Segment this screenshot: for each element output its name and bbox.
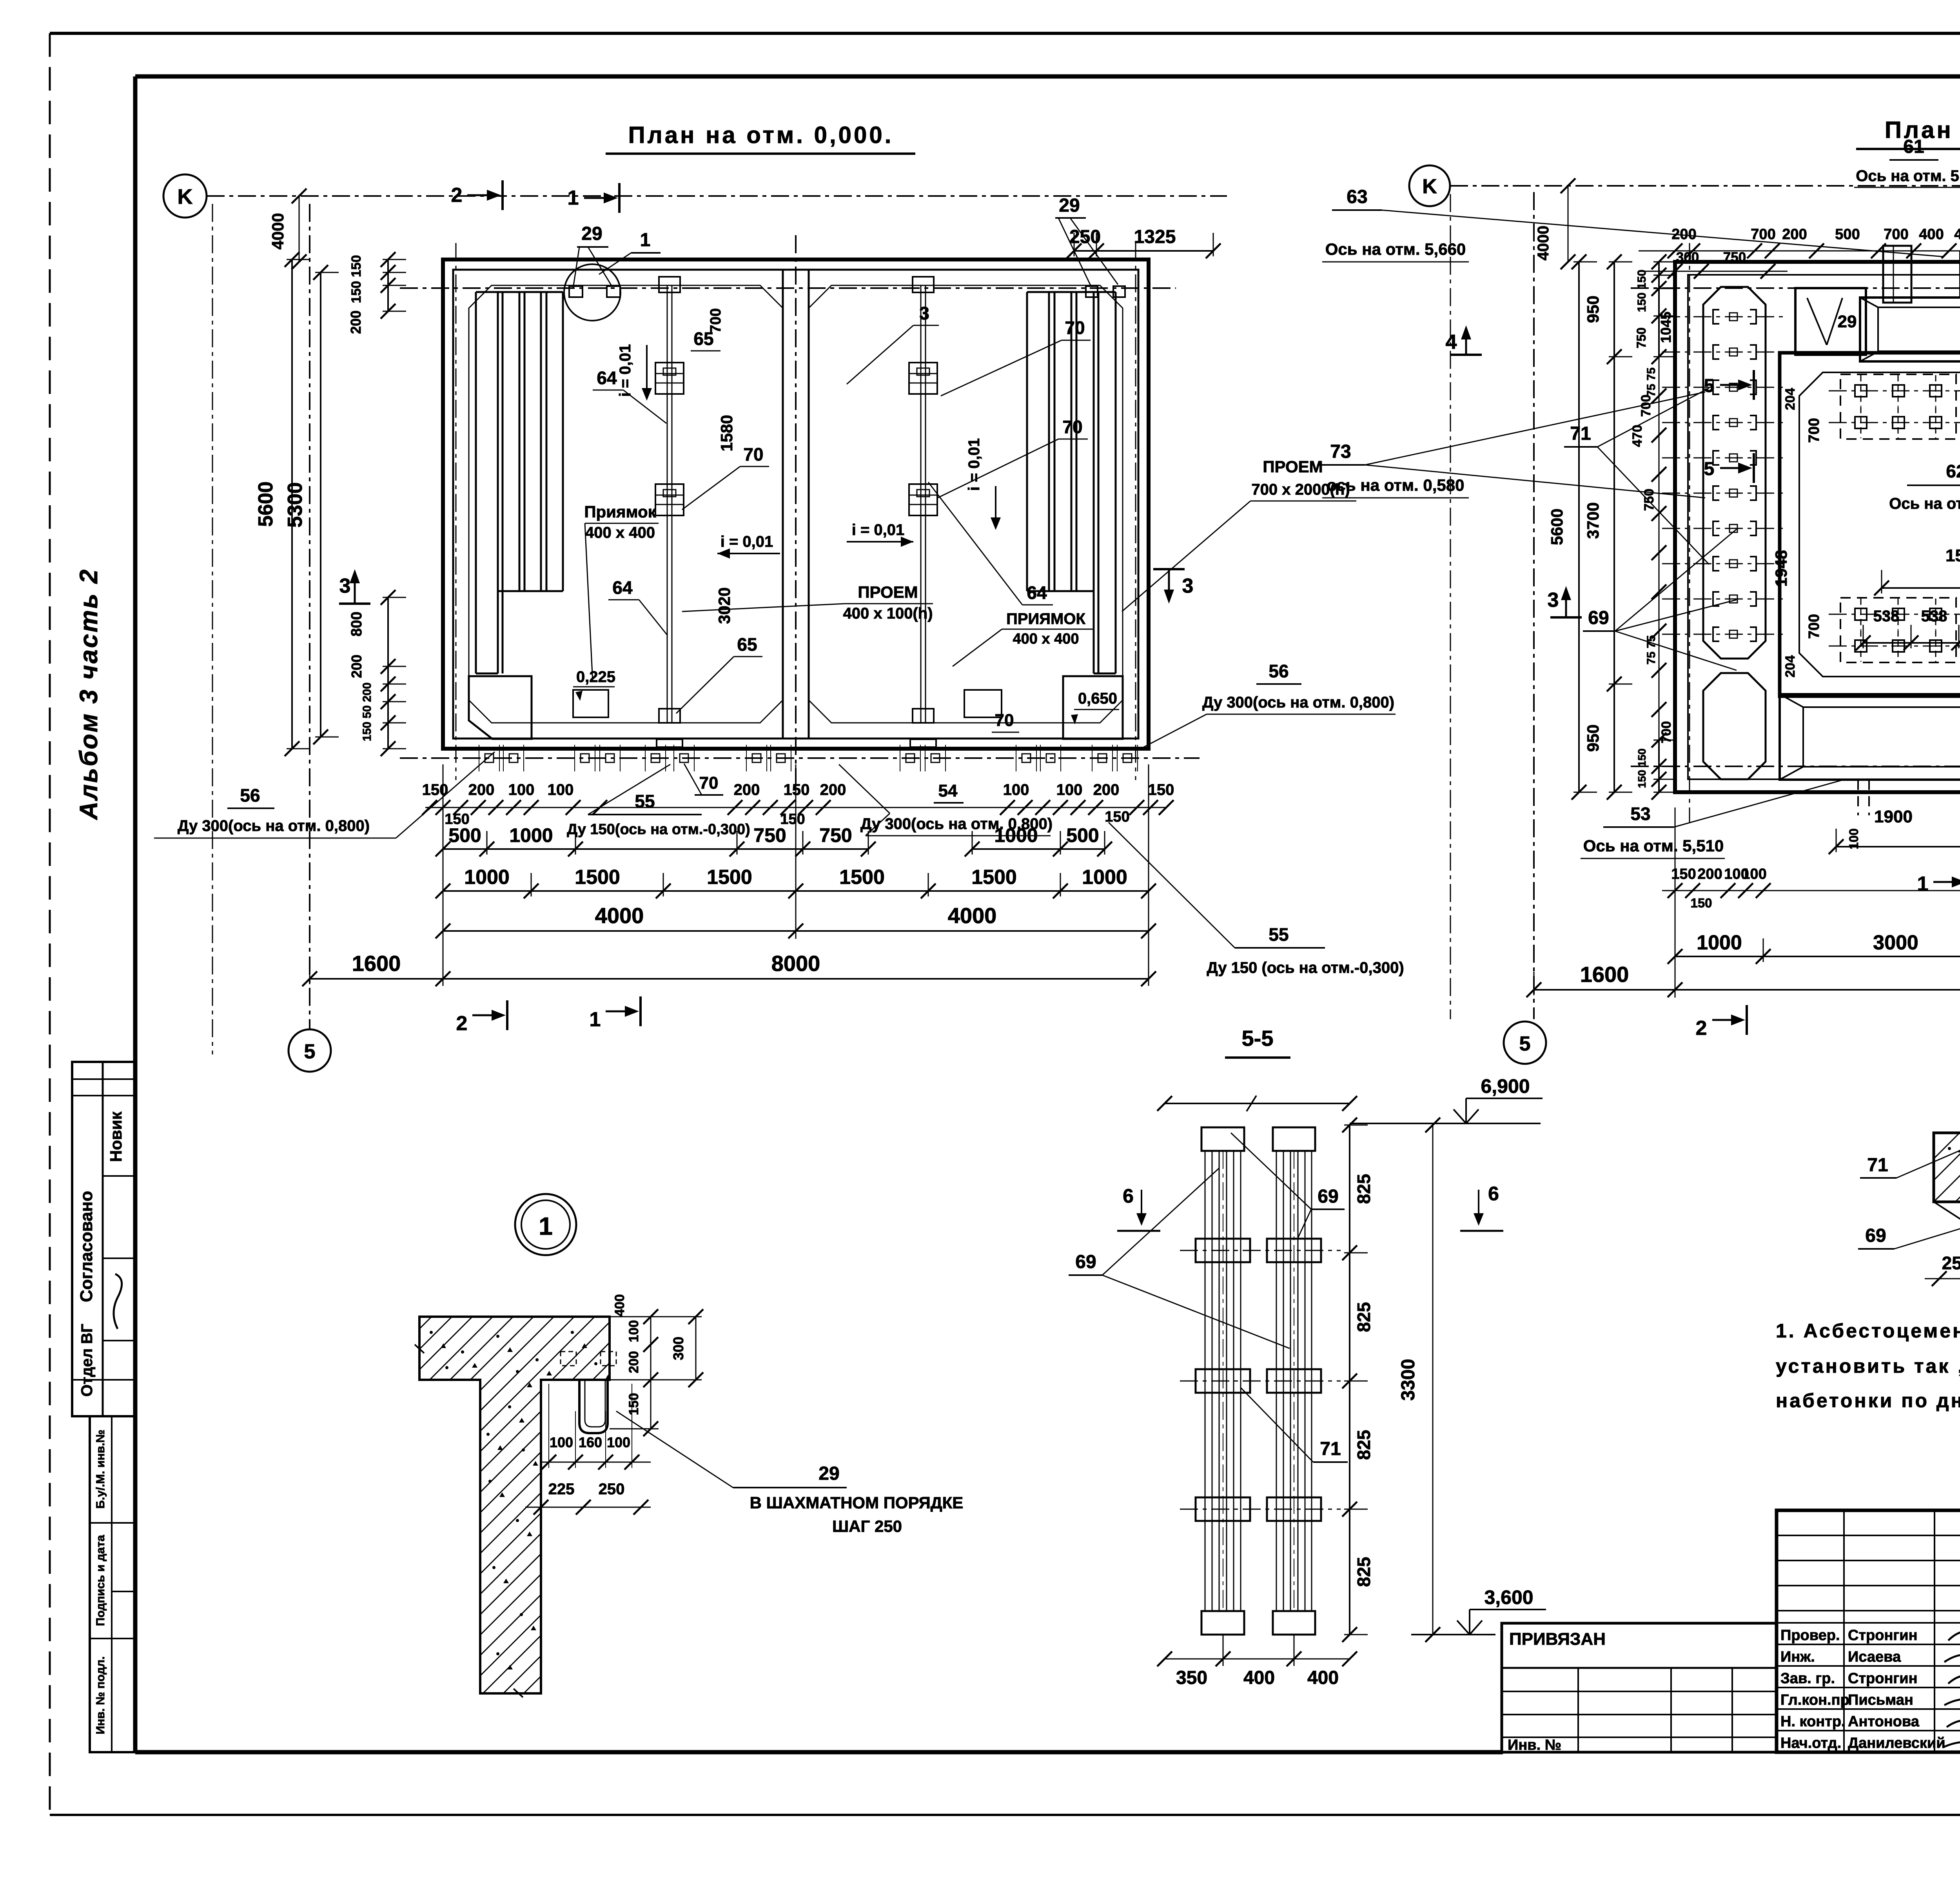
svg-text:750: 750 xyxy=(1723,250,1746,265)
plan1 cell2 sump 0,650 xyxy=(1063,676,1123,739)
svg-text:ПРИВЯЗАН: ПРИВЯЗАН xyxy=(1509,1629,1606,1649)
svg-text:100: 100 xyxy=(508,781,535,798)
svg-text:204: 204 xyxy=(1783,655,1798,678)
svg-text:200: 200 xyxy=(820,781,846,798)
svg-text:1: 1 xyxy=(568,187,579,209)
svg-text:K: K xyxy=(1422,175,1437,198)
side stamp lower box xyxy=(90,1416,135,1752)
section 5-5 mark 6 left xyxy=(1117,1185,1160,1231)
svg-text:Альбом 3 часть 2: Альбом 3 часть 2 xyxy=(74,568,103,820)
section 6-6 dim row 255-400-400 xyxy=(1925,1239,1960,1286)
svg-text:4000: 4000 xyxy=(948,903,997,928)
detail 1 tee-section with hatch xyxy=(47,1309,989,1701)
svg-text:Нач.отд.: Нач.отд. xyxy=(1780,1735,1841,1751)
svg-text:установить так , чтобы расст: установить так , чтобы расстояние от низ… xyxy=(1776,1355,1960,1377)
label PROEM 700x2000 right of plan1 xyxy=(1122,457,1356,611)
plan1 dim row 4000 4000 xyxy=(443,930,1149,932)
svg-text:5: 5 xyxy=(304,1040,316,1063)
svg-text:3700: 3700 xyxy=(1584,502,1602,539)
plan1 outer wall xyxy=(443,259,1149,749)
svg-text:3020: 3020 xyxy=(715,587,733,624)
svg-text:1500: 1500 xyxy=(971,866,1017,889)
svg-text:1325: 1325 xyxy=(1134,227,1176,247)
svg-text:500: 500 xyxy=(1066,824,1099,846)
detail 1 balloon xyxy=(515,1194,576,1255)
svg-text:5600: 5600 xyxy=(254,481,277,527)
plan2 box 29 top-left xyxy=(1795,288,1866,355)
svg-text:i = 0,01: i = 0,01 xyxy=(617,344,634,397)
svg-text:3: 3 xyxy=(339,575,351,597)
svg-text:61: 61 xyxy=(1903,136,1924,157)
svg-text:70: 70 xyxy=(1062,417,1082,437)
svg-text:150 150: 150 150 xyxy=(349,255,364,303)
svg-text:150 50 200: 150 50 200 xyxy=(361,682,374,741)
svg-text:69: 69 xyxy=(1865,1225,1886,1246)
svg-text:64: 64 xyxy=(612,577,633,598)
svg-text:69: 69 xyxy=(1318,1186,1338,1207)
svg-text:350: 350 xyxy=(1176,1668,1207,1688)
plan1 cell2 pit near partition xyxy=(964,690,1002,717)
svg-text:64: 64 xyxy=(1027,582,1047,603)
svg-text:3: 3 xyxy=(1548,589,1559,611)
svg-text:Подпись и дата: Подпись и дата xyxy=(94,1535,107,1626)
plan2 wall axes dash-dot xyxy=(1631,235,1960,829)
axis K line right xyxy=(1450,185,1960,187)
svg-text:200: 200 xyxy=(626,1351,641,1374)
plan2 inner wall line xyxy=(1688,275,1960,779)
dim 4000 K-to-plan left xyxy=(269,189,307,269)
svg-text:400 x 400: 400 x 400 xyxy=(585,524,655,541)
svg-text:825: 825 xyxy=(1354,1430,1374,1460)
svg-text:150: 150 xyxy=(784,781,810,798)
svg-text:54: 54 xyxy=(938,781,958,800)
svg-text:825: 825 xyxy=(1354,1302,1374,1332)
plan2 top beam plate left xyxy=(1860,298,1960,361)
svg-text:700: 700 xyxy=(1806,614,1822,639)
section 5-5 label 69 left xyxy=(1069,1168,1290,1348)
svg-text:4: 4 xyxy=(1446,331,1457,354)
svg-text:500: 500 xyxy=(1835,226,1860,243)
section 5-5 top dim line xyxy=(1157,1096,1357,1111)
svg-text:1500: 1500 xyxy=(1945,546,1960,565)
plan2 bottom trough xyxy=(1780,694,1960,780)
plan1 cell1 sump box xyxy=(469,676,532,739)
svg-text:56: 56 xyxy=(240,785,260,806)
svg-text:500: 500 xyxy=(448,824,481,846)
svg-text:В ШАХМАТНОМ ПОРЯДКЕ: В ШАХМАТНОМ ПОРЯДКЕ xyxy=(750,1493,964,1512)
svg-text:Отдел ВГ: Отдел ВГ xyxy=(78,1324,96,1397)
plan2 extension verticals below xyxy=(1675,807,1960,998)
svg-text:Ду 300(ось на отм. 0,800): Ду 300(ось на отм. 0,800) xyxy=(178,817,370,835)
svg-text:1500: 1500 xyxy=(839,866,885,889)
svg-text:Инж.: Инж. xyxy=(1780,1649,1815,1665)
title: Plan at elev 0,000 xyxy=(606,122,915,154)
section 5-5 dim 3300 xyxy=(1398,1118,1440,1642)
plan1 extension verticals below xyxy=(443,764,1149,986)
svg-text:29: 29 xyxy=(818,1463,839,1484)
axis K line left xyxy=(207,195,1227,197)
svg-text:8000: 8000 xyxy=(771,951,820,976)
plan2 left tick chain full xyxy=(1651,357,1666,741)
svg-text:400: 400 xyxy=(1243,1668,1275,1688)
svg-text:6: 6 xyxy=(1123,1185,1134,1207)
label 56 Du300 right of plan1 xyxy=(1141,661,1396,749)
plan1 cell2 chamfered interior xyxy=(809,285,1123,723)
plan2 left bottom panel outline xyxy=(1703,673,1766,779)
plan2 left dim column xyxy=(1535,178,1677,800)
svg-text:1: 1 xyxy=(640,230,651,250)
plan2 dim row 1000-3000 xyxy=(1675,956,1960,957)
svg-text:Инв. №: Инв. № xyxy=(1508,1737,1561,1753)
svg-text:400: 400 xyxy=(1307,1668,1339,1688)
svg-text:100: 100 xyxy=(1847,828,1861,849)
privyazan table xyxy=(1502,1623,1777,1753)
svg-text:100: 100 xyxy=(626,1320,641,1343)
section 5-5 clamp axis lines xyxy=(1180,1250,1341,1509)
axis K bubble right xyxy=(1409,165,1450,206)
svg-text:4000: 4000 xyxy=(1535,226,1552,261)
svg-text:Согласовано: Согласовано xyxy=(77,1191,96,1302)
svg-text:71: 71 xyxy=(1320,1439,1341,1459)
svg-text:200: 200 xyxy=(468,781,495,798)
title: Plan at elev 5,660 xyxy=(1856,117,1960,149)
svg-text:400: 400 xyxy=(1919,226,1944,243)
svg-text:3: 3 xyxy=(1182,575,1194,597)
plan2 bottom small stub left xyxy=(1858,780,1869,815)
svg-text:200: 200 xyxy=(1697,866,1722,882)
svg-text:0,225: 0,225 xyxy=(576,668,615,686)
plan2 dim row 1600 8000 xyxy=(1534,989,1960,991)
svg-text:Письман: Письман xyxy=(1848,1692,1913,1708)
svg-text:3,600: 3,600 xyxy=(1484,1586,1533,1608)
svg-text:29: 29 xyxy=(581,223,602,244)
svg-text:470: 470 xyxy=(1630,425,1645,447)
plan1 left small dims bottom xyxy=(348,590,406,756)
plan1 cell1 chamfered interior xyxy=(469,285,783,723)
plan2 dim 1900 below xyxy=(1829,807,1960,856)
svg-text:100: 100 xyxy=(548,781,574,798)
svg-text:5-5: 5-5 xyxy=(1242,1026,1274,1051)
svg-text:56: 56 xyxy=(1269,661,1289,681)
svg-text:Данилевский: Данилевский xyxy=(1848,1735,1945,1751)
section 6-6 labels 71 xyxy=(1860,1150,1960,1178)
plan1 cell1 formwork panels (comb) xyxy=(476,292,563,673)
label 55 Du150 bottom-right of plan1 xyxy=(1109,822,1404,976)
svg-text:3000: 3000 xyxy=(1873,931,1918,954)
label 54 below plan1 xyxy=(934,781,964,803)
svg-text:2: 2 xyxy=(1696,1017,1707,1040)
svg-text:Ду 150 (ось на отм.-0,300): Ду 150 (ось на отм.-0,300) xyxy=(1207,959,1404,976)
svg-text:700: 700 xyxy=(1884,226,1908,243)
plan1 cell2 formwork panels (comb) xyxy=(1027,292,1116,673)
svg-text:Новик: Новик xyxy=(107,1111,125,1162)
label 61 left above plan2 xyxy=(1854,136,1960,251)
label Du300 mid below plan1 xyxy=(839,764,1053,836)
svg-text:4000: 4000 xyxy=(269,213,287,249)
svg-text:1: 1 xyxy=(539,1212,553,1240)
svg-text:Инв. № подл.: Инв. № подл. xyxy=(94,1656,107,1734)
svg-text:1900: 1900 xyxy=(1874,807,1913,826)
svg-text:Стронгин: Стронгин xyxy=(1848,1670,1918,1687)
svg-text:400 x 100(h): 400 x 100(h) xyxy=(843,605,933,622)
label 1 above plan1 (detail leader) xyxy=(599,230,661,274)
svg-text:Н. контр.: Н. контр. xyxy=(1780,1713,1846,1730)
svg-text:Исаева: Исаева xyxy=(1848,1649,1901,1665)
plan1 tiny dim row xyxy=(422,781,1174,827)
plan1 slope arrows and labels xyxy=(617,344,1001,559)
svg-text:Ось на отм. 5,510: Ось на отм. 5,510 xyxy=(1583,836,1724,855)
svg-text:6,900: 6,900 xyxy=(1481,1075,1530,1097)
svg-text:750: 750 xyxy=(753,824,786,846)
svg-text:204: 204 xyxy=(1783,388,1798,410)
section 5-5 bottom dims xyxy=(1157,1635,1357,1688)
svg-text:Б.у/.М. инв.№: Б.у/.М. инв.№ xyxy=(94,1430,107,1509)
axis 5 vertical line right plan xyxy=(1533,192,1535,1019)
svg-text:1000: 1000 xyxy=(464,866,510,889)
plan2 top pipe left xyxy=(1883,246,1911,303)
svg-text:950: 950 xyxy=(1584,296,1602,323)
svg-text:100: 100 xyxy=(1003,781,1029,798)
svg-text:700: 700 xyxy=(1806,418,1822,443)
svg-text:55: 55 xyxy=(1269,924,1289,945)
svg-text:ПРИЯМОК: ПРИЯМОК xyxy=(1006,610,1085,628)
svg-text:1. Асбестоцементные листы по: 1. Асбестоцементные листы поз. 64 у днищ… xyxy=(1776,1320,1960,1342)
svg-text:825: 825 xyxy=(1354,1174,1374,1204)
svg-text:Ось на отм. 5,510: Ось на отм. 5,510 xyxy=(1889,495,1960,512)
svg-text:700: 700 xyxy=(708,308,724,333)
svg-text:65: 65 xyxy=(737,634,757,655)
svg-text:250: 250 xyxy=(1069,227,1101,247)
plan2 tiny dim row below xyxy=(1662,866,1960,910)
detail 1 bottom dims 100-160-100 xyxy=(541,1384,651,1470)
svg-text:160: 160 xyxy=(579,1434,602,1450)
label 63 left of plan2 xyxy=(1322,187,1944,262)
svg-text:Ду 150(ось на отм.-0,300): Ду 150(ось на отм.-0,300) xyxy=(567,821,750,838)
plan2 panel rows with clamps left xyxy=(1662,310,1788,641)
svg-text:1600: 1600 xyxy=(1580,962,1629,987)
svg-text:1948: 1948 xyxy=(1772,550,1790,586)
svg-text:ПРОЕМ: ПРОЕМ xyxy=(858,583,918,601)
plan1 cell1 small pit 0,225 xyxy=(573,668,615,717)
svg-text:300: 300 xyxy=(1676,250,1699,265)
svg-text:i = 0,01: i = 0,01 xyxy=(720,533,773,550)
svg-text:100: 100 xyxy=(1742,866,1766,882)
svg-text:700: 700 xyxy=(1751,226,1775,243)
label 29 top-right of plan1 xyxy=(1055,195,1118,285)
plan1 detail-1 balloon on top wall xyxy=(564,264,621,321)
label 56 Du300 bottom-left of plan1 xyxy=(154,752,495,838)
dim 250 1325 above plan1 right xyxy=(1074,250,1213,252)
svg-text:5: 5 xyxy=(1704,459,1715,479)
svg-text:1500: 1500 xyxy=(707,866,752,889)
svg-text:200: 200 xyxy=(734,781,760,798)
svg-text:1580: 1580 xyxy=(717,415,736,451)
section 6-6 labels 69 xyxy=(1858,1223,1960,1255)
elevation 3,600 xyxy=(1411,1586,1546,1635)
plan2 interior labels xyxy=(1772,388,1960,678)
plan2 top tiny dim rows xyxy=(1639,226,1960,279)
title block outer box xyxy=(1777,1510,1960,1752)
svg-text:150 150: 150 150 xyxy=(1635,270,1648,312)
svg-text:400: 400 xyxy=(1954,226,1960,243)
svg-text:1045: 1045 xyxy=(1658,312,1674,343)
plan1 cell2 partition pos.64 xyxy=(909,277,937,747)
svg-text:6: 6 xyxy=(1488,1183,1499,1205)
svg-text:225: 225 xyxy=(548,1481,575,1498)
svg-text:ПРОЕМ: ПРОЕМ xyxy=(1263,457,1323,476)
axis 5 bubble right plan xyxy=(1504,1022,1546,1064)
section 5-5 right dims 825 xyxy=(1349,1125,1350,1635)
svg-text:538: 538 xyxy=(1873,608,1900,625)
detail 1 U-channel insert xyxy=(561,1352,616,1433)
axis 5 vertical line left plan xyxy=(309,204,310,1029)
label 73 left of plan2 xyxy=(1317,392,1705,498)
svg-text:Зав. гр.: Зав. гр. xyxy=(1780,1670,1835,1687)
svg-text:69: 69 xyxy=(1588,608,1609,628)
title block revision grid xyxy=(1777,1510,1960,1623)
svg-text:400: 400 xyxy=(612,1294,627,1317)
plan1 dim row 1600 8000 xyxy=(310,978,1149,980)
plan1 inner wall edges xyxy=(453,270,1138,739)
section 6-6 slab with concrete hatch xyxy=(1891,1133,1960,1202)
label 55 Du150 below plan1 xyxy=(567,764,750,838)
svg-text:3: 3 xyxy=(919,303,929,323)
svg-text:100: 100 xyxy=(550,1434,573,1450)
svg-text:0,650: 0,650 xyxy=(1078,690,1117,707)
svg-text:69: 69 xyxy=(1075,1252,1096,1272)
plan2 left chamber bottom plate xyxy=(1829,598,1960,662)
section 5-5 title xyxy=(1225,1026,1290,1058)
svg-text:1000: 1000 xyxy=(1697,931,1742,954)
plan1 channel pieces pos.29 in top wall xyxy=(569,286,1125,297)
svg-text:150: 150 xyxy=(1690,896,1712,910)
svg-text:3300: 3300 xyxy=(1398,1359,1419,1401)
svg-text:70: 70 xyxy=(743,444,763,465)
axis K bubble left xyxy=(163,174,207,218)
svg-text:62: 62 xyxy=(1946,461,1960,481)
svg-text:150 150: 150 150 xyxy=(1636,748,1648,788)
svg-text:73: 73 xyxy=(1330,441,1351,462)
plan1 dim row 500-1000-750 xyxy=(443,848,868,850)
svg-text:1600: 1600 xyxy=(352,951,401,976)
svg-text:200: 200 xyxy=(348,310,364,334)
svg-text:1000: 1000 xyxy=(1082,866,1127,889)
plan2 left chamber top plate xyxy=(1829,374,1960,439)
section 5-5 label 71 xyxy=(1241,1388,1348,1462)
plan2 below labels 53 xyxy=(1581,780,1842,858)
plan2 left chamber walls xyxy=(1780,353,1960,696)
svg-text:950: 950 xyxy=(1584,724,1602,752)
svg-text:Ду 300(ось на отм. 0,800): Ду 300(ось на отм. 0,800) xyxy=(1202,694,1394,711)
svg-text:2: 2 xyxy=(451,184,463,207)
svg-text:200: 200 xyxy=(1093,781,1120,798)
svg-text:29: 29 xyxy=(1838,312,1857,331)
svg-text:Ось на отм. 5,510: Ось на отм. 5,510 xyxy=(1856,167,1960,185)
svg-text:55: 55 xyxy=(635,791,655,811)
svg-text:53: 53 xyxy=(1630,804,1650,824)
svg-text:5: 5 xyxy=(1519,1032,1531,1055)
label 69 left of plan2 xyxy=(1583,529,1737,670)
svg-text:i = 0,01: i = 0,01 xyxy=(852,521,905,539)
title block signature rows xyxy=(1777,1510,1960,1752)
svg-text:1: 1 xyxy=(590,1008,601,1031)
svg-text:2: 2 xyxy=(456,1012,468,1035)
svg-text:70: 70 xyxy=(1065,318,1085,338)
svg-text:300: 300 xyxy=(670,1337,686,1360)
detail 1 right dims xyxy=(610,1294,703,1436)
svg-text:5300: 5300 xyxy=(284,482,307,528)
svg-text:75 75: 75 75 xyxy=(1645,367,1658,397)
svg-text:Приямок: Приямок xyxy=(584,503,656,521)
section 6-6 sheet pins xyxy=(1934,1202,1960,1237)
svg-text:набетонки по днищу составл: набетонки по днищу составляло 50 мм. xyxy=(1776,1390,1960,1412)
auxiliary vertical dash-dot under K2 xyxy=(1450,194,1451,1019)
label 29 above plan1 xyxy=(573,223,612,288)
svg-text:Гл.кон.пр: Гл.кон.пр xyxy=(1780,1692,1849,1708)
svg-text:1500: 1500 xyxy=(575,866,620,889)
svg-text:Ось на отм. 5,660: Ось на отм. 5,660 xyxy=(1325,240,1466,258)
svg-text:71: 71 xyxy=(1867,1155,1888,1176)
svg-text:29: 29 xyxy=(1059,195,1080,216)
svg-text:538: 538 xyxy=(1921,608,1947,625)
svg-text:100: 100 xyxy=(607,1434,630,1450)
plan1 anchor squares on bottom axis xyxy=(479,745,1138,771)
plan1 left small dims top xyxy=(348,252,406,334)
svg-text:70: 70 xyxy=(995,711,1014,730)
plan1 dim row 1000x1500 xyxy=(443,890,1149,892)
auxiliary vertical dash-dot left of plan1 xyxy=(212,204,213,1054)
svg-text:750: 750 xyxy=(1634,327,1648,348)
svg-text:1: 1 xyxy=(1917,873,1929,895)
plan1 left dims 5600 5300 xyxy=(254,252,339,756)
detail 1 label 29 with note xyxy=(616,1411,963,1535)
svg-text:Стронгин: Стронгин xyxy=(1848,1627,1918,1644)
svg-text:700: 700 xyxy=(1639,395,1653,417)
svg-text:ось на отм. 0,580: ось на отм. 0,580 xyxy=(1327,476,1464,494)
section 5-5 sheet column 1 xyxy=(1196,1127,1250,1635)
side stamp upper box xyxy=(72,1062,135,1416)
axis 5 bubble left plan xyxy=(289,1029,331,1072)
svg-text:100: 100 xyxy=(1056,781,1083,798)
svg-text:150: 150 xyxy=(1148,781,1174,798)
svg-text:K: K xyxy=(178,185,193,209)
svg-text:75 75: 75 75 xyxy=(1645,635,1658,664)
label 71 left of plan2 xyxy=(1564,388,1709,564)
section 5-5 label 69 right xyxy=(1231,1133,1345,1239)
plan1 cell1 partition pos.64 xyxy=(655,277,684,747)
section 5-5 sheet column 2 xyxy=(1267,1127,1321,1635)
plan1 text labels inside xyxy=(584,303,1094,732)
svg-text:825: 825 xyxy=(1354,1557,1374,1587)
plan1 wall axes dash-dot xyxy=(400,235,1200,788)
plan2 left panel stack outline xyxy=(1703,287,1766,659)
svg-text:Провер.: Провер. xyxy=(1780,1627,1840,1644)
svg-text:800: 800 xyxy=(348,611,365,636)
plan2 outer wall xyxy=(1675,262,1960,792)
svg-text:1000: 1000 xyxy=(994,824,1038,846)
svg-text:750: 750 xyxy=(819,824,852,846)
svg-text:200: 200 xyxy=(1782,226,1807,243)
svg-text:71: 71 xyxy=(1570,423,1591,444)
svg-text:750: 750 xyxy=(1642,489,1657,511)
plan1 dim row right 1000-500 xyxy=(972,848,1105,850)
elevation 6,900 xyxy=(1350,1075,1543,1123)
svg-text:400 x 400: 400 x 400 xyxy=(1013,631,1079,647)
svg-text:250: 250 xyxy=(599,1481,625,1498)
svg-text:150: 150 xyxy=(626,1393,641,1415)
svg-text:64: 64 xyxy=(597,368,617,388)
svg-text:70: 70 xyxy=(699,773,719,793)
